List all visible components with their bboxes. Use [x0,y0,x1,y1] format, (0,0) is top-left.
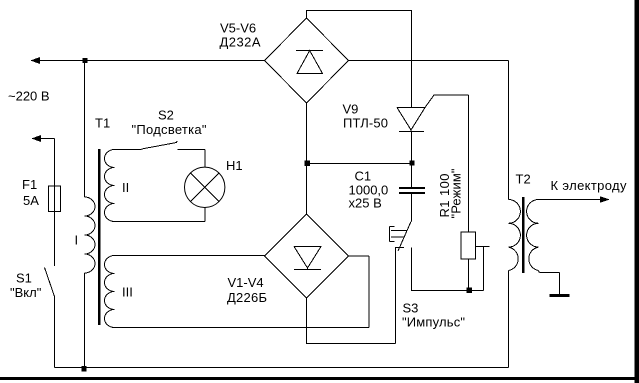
svg-text:S1: S1 [16,271,32,286]
svg-text:Д226Б: Д226Б [227,290,267,305]
svg-text:I: I [75,233,79,248]
svg-text:H1: H1 [226,158,243,173]
svg-text:V1-V4: V1-V4 [228,275,264,290]
svg-text:К электроду: К электроду [551,178,628,193]
svg-text:"Вкл": "Вкл" [10,285,42,300]
svg-text:S2: S2 [158,108,174,123]
svg-text:"Подсветка": "Подсветка" [132,122,207,137]
svg-text:T2: T2 [516,172,531,187]
svg-text:V5-V6: V5-V6 [220,21,256,36]
svg-text:"Импульс": "Импульс" [402,315,465,330]
svg-text:II: II [122,180,129,195]
svg-text:T1: T1 [95,116,110,131]
svg-text:х25 В: х25 В [349,196,382,211]
svg-text:C1: C1 [355,169,372,184]
svg-text:5А: 5А [23,193,39,208]
svg-text:Д232А: Д232А [220,35,261,50]
svg-text:III: III [122,285,133,300]
svg-text:"Режим": "Режим" [449,168,464,218]
svg-text:V9: V9 [343,102,359,117]
svg-text:~220 В: ~220 В [8,89,50,104]
svg-text:F1: F1 [22,177,37,192]
svg-text:ПТЛ-50: ПТЛ-50 [343,116,388,131]
svg-text:S3: S3 [403,301,419,316]
